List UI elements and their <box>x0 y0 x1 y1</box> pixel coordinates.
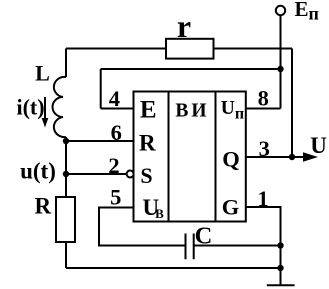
svg-text:i(t): i(t) <box>16 95 44 120</box>
svg-text:6: 6 <box>111 120 122 145</box>
svg-text:2: 2 <box>108 153 119 178</box>
svg-text:8: 8 <box>258 85 269 110</box>
svg-text:S: S <box>140 163 152 188</box>
svg-text:UВ: UВ <box>143 195 165 221</box>
svg-text:r: r <box>177 8 191 44</box>
svg-text:5: 5 <box>110 185 121 210</box>
svg-text:ВИ: ВИ <box>175 101 209 122</box>
svg-text:u(t): u(t) <box>20 159 56 184</box>
svg-text:Eп: Eп <box>295 0 319 24</box>
svg-text:G: G <box>222 195 240 220</box>
svg-text:3: 3 <box>259 136 270 161</box>
svg-text:R: R <box>139 131 156 156</box>
svg-text:1: 1 <box>257 186 268 211</box>
svg-text:C: C <box>195 222 213 249</box>
svg-text:E: E <box>140 97 157 124</box>
svg-text:R: R <box>34 194 51 219</box>
svg-text:Uп: Uп <box>221 98 244 123</box>
svg-text:4: 4 <box>109 86 120 111</box>
svg-text:U: U <box>310 133 327 158</box>
svg-text:Q: Q <box>222 147 240 172</box>
svg-text:L: L <box>35 61 50 86</box>
